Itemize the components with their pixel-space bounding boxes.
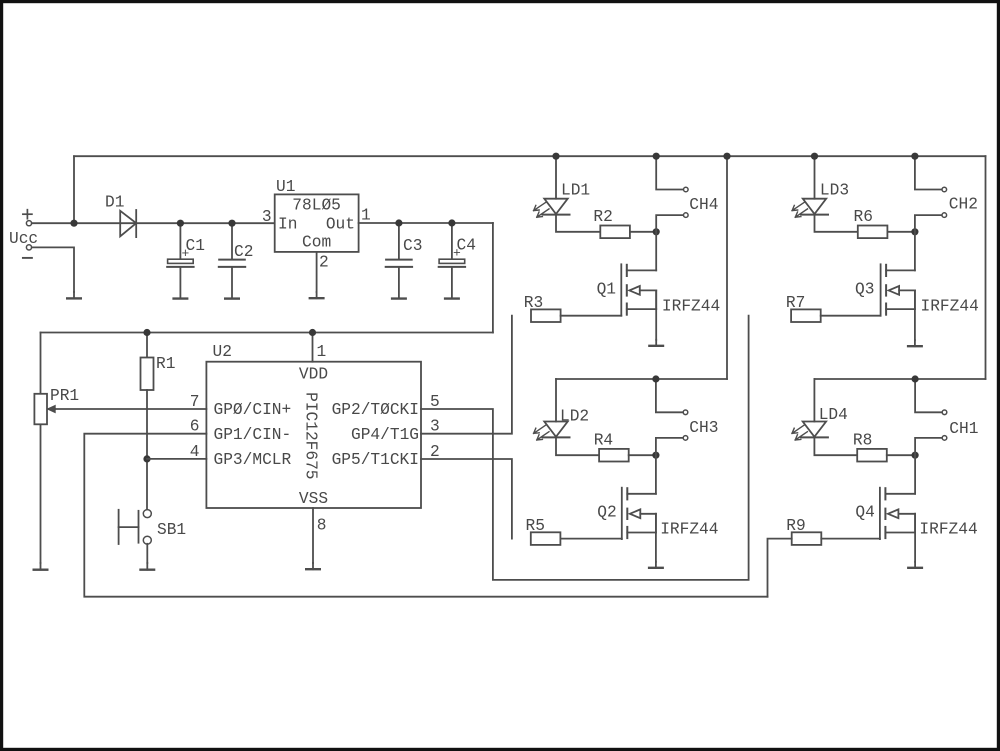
regulator U1 box [275,194,359,252]
label R6 [854,208,873,226]
label Q3 [855,281,874,299]
junction CH4 pin1 on rail [653,153,660,160]
connector CH4 pin 1 wire [656,156,683,189]
svg-text:R2: R2 [593,208,612,226]
label Com [302,233,331,251]
label GP0/CIN+ [214,401,292,419]
svg-text:GP2/TØCKI: GP2/TØCKI [332,401,419,419]
wire pin 7 GP0 to PR1 wiper [55,408,206,410]
pin number 2 (U1 Com) [319,254,329,272]
label LD3 [820,182,849,200]
wire drain of Q2 [655,455,657,494]
connector CH3 pin 2 terminal [683,436,688,441]
svg-text:R6: R6 [854,208,873,226]
label GP1/CIN- [214,426,292,444]
svg-text:In: In [278,216,297,234]
junction C4 on Out wire [448,219,455,226]
wire R8 to drain node [887,454,915,456]
label C4 plus [453,246,461,261]
wire source of Q2 to ground [655,514,657,562]
wire R1 top [146,333,148,358]
connector CH2 pin 1 terminal [942,187,947,192]
pin number 8 (U2 VSS) [317,517,327,535]
svg-text:78LØ5: 78LØ5 [292,197,341,215]
LED LD1 [534,199,570,218]
junction VDD stub on rail [309,329,316,336]
connector CH2 pin 1 wire [915,156,942,189]
ground Q4 source [908,562,922,568]
wire SB1 to ground [146,544,148,563]
svg-text:GP3/MCLR: GP3/MCLR [214,451,292,469]
wire source of Q3 to ground [914,290,916,340]
svg-text:R1: R1 [156,355,175,373]
svg-text:IRFZ44: IRFZ44 [919,521,977,539]
label Q1 [597,281,616,299]
ground Q3 source [908,340,922,346]
wire source of Q1 to ground [655,290,657,339]
label GP3/MCLR [214,451,292,469]
junction R1 / GP3 wire [143,455,150,462]
junction C2 on input wire [228,220,235,227]
wire R9 to gate of Q4 [821,538,880,540]
ground SB1 [141,563,155,570]
svg-text:IRFZ44: IRFZ44 [660,521,718,539]
svg-text:R9: R9 [786,517,805,535]
pin number 7 [190,393,200,411]
svg-text:GP4/T1G: GP4/T1G [351,426,419,444]
resistor R6 [858,226,888,239]
wire pin 5 GP2 to R7 [421,316,749,580]
ground Q1 source [649,340,663,346]
label LD4 [819,406,848,424]
value IRFZ44 (Q4) [919,521,977,539]
wire Ucc- lead [32,247,74,292]
label GP2/T0CKI [332,401,419,419]
transistor Q1 [621,264,656,315]
wire riser to LD2 rail [726,156,728,379]
potentiometer PR1 box [34,394,47,425]
resistor R5 [531,532,561,545]
junction R8 / connector / drain [912,452,919,459]
svg-text:LD3: LD3 [820,182,849,200]
wire U2 VDD stub (pin 1) [312,333,314,362]
svg-text:VDD: VDD [299,366,328,384]
wire top +V rail [74,155,986,157]
label SB1 [157,521,186,539]
label PIC12F675 [302,392,320,479]
label Out [326,216,355,234]
wire pin 3 GP4 to R3 [421,316,512,434]
transistor Q2 [622,488,656,539]
wire drain of Q1 [655,232,657,271]
svg-text:R7: R7 [786,294,805,312]
capacitor C3 [386,223,412,298]
wire U1 Out [359,222,493,224]
svg-text:D1: D1 [105,194,124,212]
wire LD2 cathode to R4 [556,437,599,455]
value IRFZ44 (Q3) [921,298,979,316]
svg-text:Q4: Q4 [855,504,874,522]
wire LD4 rail [814,378,985,380]
resistor R9 [792,532,822,545]
label Q2 [597,504,616,522]
connector CH1 pin 2 terminal [942,436,947,441]
label C1 [186,237,205,255]
svg-text:7: 7 [190,393,200,411]
junction C3 on Out wire [395,219,402,226]
wire LD1 cathode to R2 [556,215,600,232]
svg-text:U2: U2 [213,343,232,361]
svg-text:Out: Out [326,216,355,234]
svg-text:C4: C4 [457,237,476,255]
svg-text:1: 1 [361,206,371,224]
wire R5 to gate of Q2 [560,538,621,540]
svg-text:LD1: LD1 [561,182,590,200]
wire LD4 anode [813,379,815,422]
label R9 [786,517,805,535]
svg-text:LD4: LD4 [819,406,848,424]
wire LD3 cathode to R6 [815,215,858,232]
label VSS [299,490,328,508]
junction R1 top on VDD rail [143,329,150,336]
wire top rail right drop [985,156,987,379]
label In [278,216,297,234]
ground Q2 source [649,562,663,568]
label LD1 [561,182,590,200]
wire LD2 rail [556,378,727,380]
resistor R1 [141,358,154,391]
wire U1 Com stub [316,252,318,292]
wire LD1 anode [555,156,557,199]
connector CH3 pin 2 wire [656,438,683,455]
wire Ucc+ to U1 In [32,222,275,224]
pushbutton SB1 contact bottom [143,536,151,544]
wire R1 bottom to SB1 [146,390,148,509]
svg-text:PR1: PR1 [50,387,79,405]
label 78L05 [292,197,341,215]
label R3 [524,294,543,312]
svg-text:SB1: SB1 [157,521,186,539]
wire R4 to drain node [629,454,656,456]
connector CH3 pin 1 terminal [683,410,688,415]
connector CH4 pin 1 terminal [684,187,689,192]
wire R7 to gate of Q3 [821,315,881,317]
label Q4 [855,504,874,522]
junction LD1 anode on rail [552,153,559,160]
diode D1 [120,210,136,237]
pin number 5 [430,393,440,411]
svg-text:C1: C1 [186,237,205,255]
junction Ucc+ / riser [70,220,77,227]
pin number 3 (U1 In) [262,208,272,226]
pin number 2 (U2 GP5) [430,443,440,461]
label R4 [594,431,613,449]
label GP5/T1CKI [332,451,419,469]
svg-text:Q3: Q3 [855,281,874,299]
LED LD4 [792,422,828,441]
wire R9 gate feed riser [768,539,792,597]
resistor R3 [531,309,561,322]
junction CH2 pin1 on rail [911,153,918,160]
label CH3 [689,419,718,437]
wire drain of Q3 [914,232,916,271]
connector CH1 pin 2 wire [915,438,942,455]
capacitor C1 [167,223,193,298]
net label Ucc [9,230,38,248]
mcu U2 box [206,362,421,508]
svg-text:5: 5 [430,393,440,411]
connector CH1 pin 1 terminal [942,410,947,415]
connector CH4 pin 2 wire [656,215,683,232]
wire R2 to drain node [630,231,656,233]
label CH4 [689,196,718,214]
transistor Q4 [880,488,915,539]
node Ucc - terminal [23,245,32,258]
junction CH1 pin1 on rail [912,375,919,382]
label C1 plus [182,246,190,261]
svg-text:8: 8 [317,517,327,535]
svg-text:R3: R3 [524,294,543,312]
resistor R7 [791,309,821,322]
svg-text:GP1/CIN-: GP1/CIN- [214,426,292,444]
svg-text:Q2: Q2 [597,504,616,522]
pushbutton SB1 contact top [143,510,151,518]
label U2 [213,343,232,361]
LED LD3 [792,199,828,218]
label GP4/T1G [351,426,419,444]
label R5 [526,517,545,535]
wire +5V drop to VDD rail [492,223,494,333]
wire LD2 anode [555,379,557,422]
resistor R2 [600,226,630,239]
label CH1 [949,420,978,438]
svg-text:Com: Com [302,233,331,251]
value IRFZ44 (Q2) [660,521,718,539]
ground PR1 [34,563,48,570]
transistor Q3 [881,264,915,315]
svg-text:CH2: CH2 [949,196,978,214]
svg-text:6: 6 [190,418,200,436]
svg-text:4: 4 [190,443,200,461]
label C3 [403,237,422,255]
capacitor C2 [219,223,245,298]
svg-text:3: 3 [262,208,272,226]
junction R6 / connector / drain [911,228,918,235]
svg-text:LD2: LD2 [560,408,589,426]
wire pin 2 GP5 to R5 [421,459,512,539]
label C2 [234,243,253,261]
pin number 1 (U2 VDD) [317,343,327,361]
ground U2 VSS [306,563,320,569]
node Ucc + terminal [23,210,32,226]
svg-text:IRFZ44: IRFZ44 [921,298,979,316]
connector CH2 pin 2 terminal [942,213,947,218]
label CH2 [949,196,978,214]
pushbutton SB1 bar and stem [119,510,139,544]
label LD2 [560,408,589,426]
wire VDD rail [41,332,493,334]
pin number 3 (U2 GP4) [430,418,440,436]
svg-text:IRFZ44: IRFZ44 [662,298,720,316]
wire pin 4 GP3 [147,458,206,460]
label PR1 [50,387,79,405]
wire R6 to drain node [887,231,915,233]
junction R4 / connector / drain [652,452,659,459]
svg-text:3: 3 [430,418,440,436]
pin number 1 (U1 Out) [361,206,371,224]
svg-text:CH3: CH3 [689,419,718,437]
value IRFZ44 (Q1) [662,298,720,316]
wire U2 VSS stub (pin 8) [312,508,314,563]
wire LD4 cathode to R8 [814,437,857,455]
svg-text:U1: U1 [276,178,295,196]
svg-text:CH4: CH4 [689,196,718,214]
label D1 [105,194,124,212]
wire pin 6 GP1 [84,434,767,597]
svg-text:C3: C3 [403,237,422,255]
junction CH3 pin1 on rail [652,375,659,382]
label R2 [593,208,612,226]
wire source of Q4 to ground [914,514,916,562]
svg-text:R5: R5 [526,517,545,535]
svg-text:Ucc: Ucc [9,230,38,248]
svg-text:R8: R8 [853,431,872,449]
svg-text:R4: R4 [594,431,613,449]
junction R2 / connector / drain [653,228,660,235]
resistor R8 [857,449,887,462]
svg-text:2: 2 [319,254,329,272]
connector CH2 pin 2 wire [915,215,942,232]
svg-text:GP5/T1CKI: GP5/T1CKI [332,451,419,469]
junction LD3 anode on rail [811,153,818,160]
connector CH3 pin 1 wire [656,379,683,412]
svg-text:GPØ/CIN+: GPØ/CIN+ [214,401,292,419]
svg-text:PIC12F675: PIC12F675 [302,392,320,479]
label R8 [853,431,872,449]
capacitor C4 [439,223,465,298]
svg-text:2: 2 [430,443,440,461]
svg-text:1: 1 [317,343,327,361]
ground U1 Com [310,292,324,298]
label R7 [786,294,805,312]
connector CH4 pin 2 terminal [684,213,689,218]
wire R3 to gate of Q1 [561,315,622,317]
wire riser to +V top rail [73,156,75,223]
wire PR1 body [40,333,42,564]
resistor R4 [599,449,629,462]
wire drain of Q4 [914,455,916,494]
wiper arrow PR1 [47,405,55,412]
junction riser top (LD2) [723,153,730,160]
label R1 [156,355,175,373]
connector CH1 pin 1 wire [915,379,942,412]
svg-text:C2: C2 [234,243,253,261]
svg-text:Q1: Q1 [597,281,616,299]
LED LD2 [534,422,570,441]
svg-text:VSS: VSS [299,490,328,508]
label VDD [299,366,328,384]
junction C1 on input wire [177,220,184,227]
svg-text:CH1: CH1 [949,420,978,438]
wire LD3 anode [814,156,816,199]
pin number 6 [190,418,200,436]
ground Ucc- [67,292,81,298]
pin number 4 [190,443,200,461]
label U1 [276,178,295,196]
label C4 [457,237,476,255]
